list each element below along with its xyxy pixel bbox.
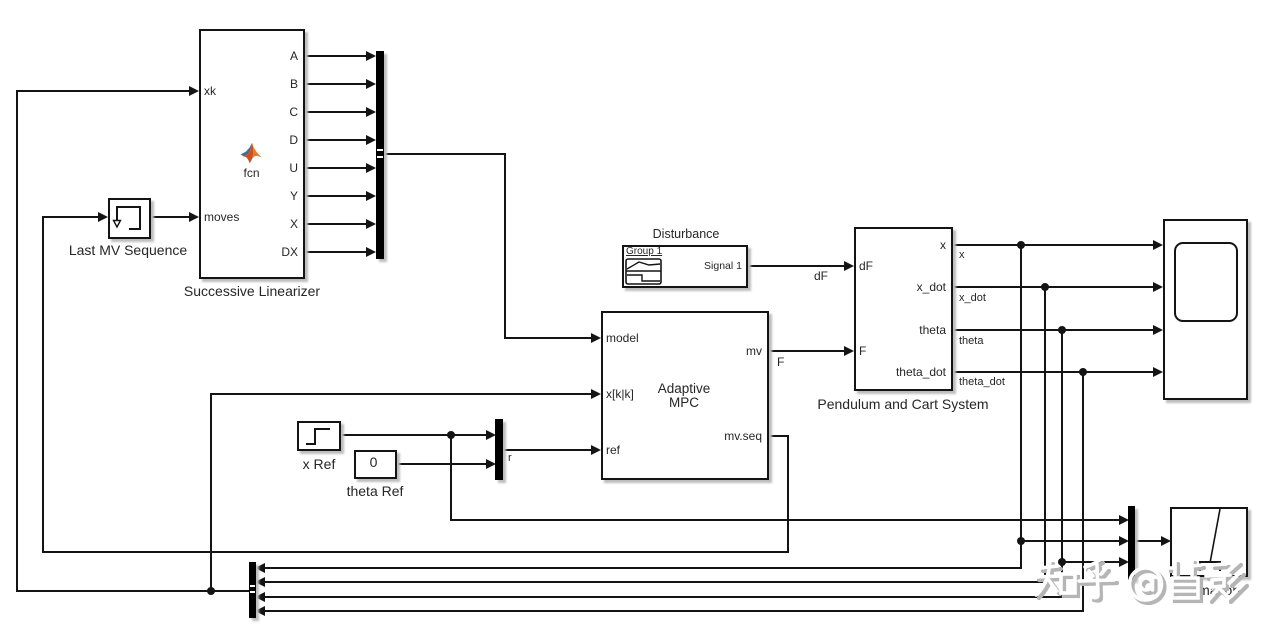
wire arrow into moves [189,212,199,222]
node theta_dot branch [1079,368,1087,376]
subsystem Pendulum and Cart System [854,227,953,391]
wire x_dot to scope [953,286,1154,288]
wire arrow into model [591,333,601,343]
wire theta_dot vertical branch [1082,371,1084,611]
node x branch [1017,241,1025,249]
wire x vertical branch [1020,244,1022,569]
wire x_dot to feedback mux [264,581,1046,583]
mux r [495,419,503,480]
wire arrow into xk [189,86,199,96]
wire dF [748,265,845,267]
wire x Ref to r mux [341,434,487,436]
node state branch junction [207,587,215,595]
wire xk horizontal [16,90,190,92]
wire theta to animation mux [1061,561,1120,563]
wire theta_dot to scope [953,371,1154,373]
subsystem Adaptive MPC [601,311,769,480]
node x to animation branch [1017,537,1025,545]
wire arrow into x[k|k] [591,389,601,399]
wire arrow into Last MV Sequence [98,212,108,222]
label signal theta_dot [959,376,1005,388]
block Animation [1170,507,1248,577]
wire x to scope [953,244,1154,246]
label signal F [777,356,784,368]
wire theta to feedback mux [264,596,1063,598]
mux animation [1128,506,1135,580]
wire output B [305,83,367,85]
wire x to feedback mux [264,567,1022,569]
subsystem Successive Linearizer [199,29,305,279]
wire theta to scope [953,329,1154,331]
wire r to ref [503,449,592,451]
label signal x_dot [959,292,986,304]
wire x Ref branch down [450,434,452,520]
node theta branch [1058,326,1066,334]
wire output DX [305,251,367,253]
wire x_dot vertical branch [1044,286,1046,583]
node x_dot branch [1041,283,1049,291]
wire mv.seq horizontal stub [769,435,789,437]
wire x Ref branch long to animation mux [450,519,1120,521]
wire state to x[k|k] vertical [210,394,212,591]
wire animation mux output [1134,540,1162,542]
label signal x [959,249,965,261]
wire mv.seq up to Last MV [42,216,44,552]
wire theta Ref to r mux [397,463,487,465]
wire state bus output of feedback mux [16,590,249,592]
wire output X [305,223,367,225]
wire output U [305,167,367,169]
wire theta vertical branch [1061,329,1063,597]
wire into Last MV Sequence [42,216,99,218]
mux state feedback [249,562,256,618]
wire model bus from mux [384,153,506,155]
wire mv to F [769,350,845,352]
label signal theta [959,335,983,347]
wire output A [305,55,367,57]
wire state to x[k|k] horizontal [210,393,592,395]
wire mv.seq long horizontal [42,551,789,553]
block Last MV Sequence [108,198,151,239]
wire theta_dot to feedback mux [264,610,1084,612]
scope [1163,219,1248,400]
constant theta Ref [354,450,397,479]
mux state A-DX [376,51,384,259]
label signal r [508,452,512,464]
node theta to animation branch [1058,558,1066,566]
wire output D [305,139,367,141]
step x Ref [297,421,341,451]
wire output Y [305,195,367,197]
node x Ref branch [447,431,455,439]
icon MATLAB fcn logo [240,142,262,164]
signal builder Disturbance [622,245,748,288]
label signal dF [814,270,828,282]
wire mv.seq vertical [787,435,789,552]
wire x to animation mux [1020,540,1120,542]
wire moves [151,216,190,218]
wire output C [305,111,367,113]
watermark 知乎 @背影 [1030,556,1250,606]
wire xk feedback vertical [16,91,18,592]
